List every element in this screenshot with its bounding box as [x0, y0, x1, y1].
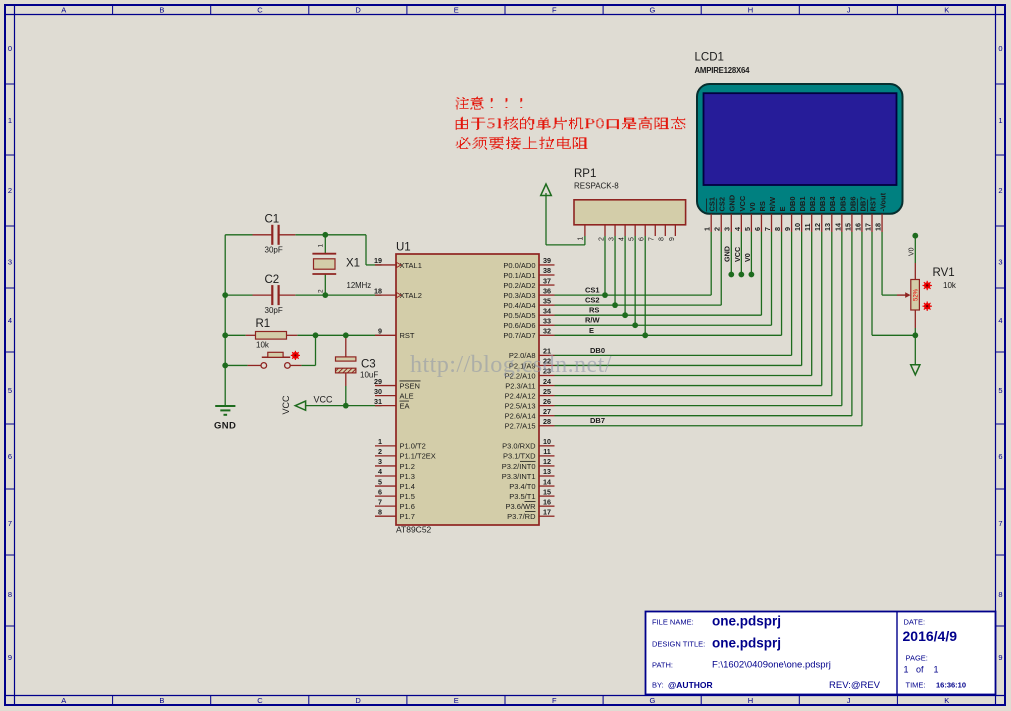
svg-text:XTAL2: XTAL2	[400, 291, 422, 300]
svg-text:37: 37	[543, 276, 551, 285]
svg-text:9: 9	[378, 327, 382, 336]
svg-text:A: A	[61, 696, 66, 705]
svg-text:1: 1	[378, 437, 382, 446]
svg-text:P2.5/A13: P2.5/A13	[505, 401, 536, 410]
svg-text:TIME:: TIME:	[906, 681, 926, 690]
LCD1 pin labels	[707, 192, 888, 211]
svg-text:GND: GND	[723, 246, 732, 262]
svg-text:C2: C2	[265, 274, 280, 286]
svg-text:5: 5	[998, 386, 1002, 395]
svg-text:D: D	[355, 696, 361, 705]
net labels DB0 DB7	[590, 346, 605, 425]
svg-text:E: E	[778, 206, 787, 211]
wire LCD pin17 RST down	[872, 232, 915, 335]
svg-text:R1: R1	[256, 318, 271, 330]
svg-text:P3.6/WR: P3.6/WR	[505, 502, 536, 511]
svg-text:30: 30	[374, 387, 382, 396]
junction dots left section	[222, 232, 348, 409]
wire crystal bottom	[324, 275, 326, 296]
svg-text:1 of 1: 1 of 1	[904, 665, 939, 675]
svg-text:one.pdsprj: one.pdsprj	[712, 636, 781, 651]
svg-text:13: 13	[543, 467, 551, 476]
capacitor C2	[253, 274, 296, 315]
svg-text:52%: 52%	[914, 288, 920, 301]
svg-text:10k: 10k	[256, 341, 270, 350]
svg-text:VCC: VCC	[733, 247, 742, 262]
svg-text:GND: GND	[214, 421, 236, 432]
svg-text:P0.3/AD3: P0.3/AD3	[503, 291, 535, 300]
svg-text:DB0: DB0	[788, 196, 797, 211]
svg-text:0: 0	[998, 44, 1002, 53]
U1 left pins	[374, 256, 436, 521]
svg-text:V0: V0	[748, 202, 757, 211]
pushbutton	[248, 352, 302, 368]
svg-text:REV:@REV: REV:@REV	[829, 680, 881, 691]
svg-text:8: 8	[998, 590, 1002, 599]
svg-text:D: D	[355, 6, 361, 15]
svg-text:P0.7/AD7: P0.7/AD7	[503, 331, 535, 340]
svg-text:one.pdsprj: one.pdsprj	[712, 614, 781, 629]
svg-text:B: B	[159, 6, 164, 15]
svg-text:12: 12	[543, 457, 551, 466]
svg-text:16: 16	[853, 223, 862, 231]
svg-text:P2.4/A12: P2.4/A12	[505, 391, 536, 400]
RP1 pin 1 stub	[584, 225, 586, 237]
svg-text:P3.1/TXD: P3.1/TXD	[503, 452, 536, 461]
svg-text:AMPIRE128X64: AMPIRE128X64	[695, 66, 751, 75]
node V0 at RV1	[912, 233, 918, 239]
LCD1 body	[697, 84, 903, 214]
svg-text:E: E	[589, 326, 594, 335]
svg-text:14: 14	[833, 223, 842, 231]
svg-text:RESPACK-8: RESPACK-8	[574, 182, 619, 191]
svg-text:8: 8	[378, 507, 382, 516]
wire RV1 bottom to ground	[914, 335, 916, 365]
svg-text:P1.3: P1.3	[400, 472, 415, 481]
svg-text:30pF: 30pF	[265, 306, 283, 315]
svg-text:RST: RST	[400, 331, 415, 340]
wire RP1 pin1 to VCC	[546, 193, 585, 245]
svg-text:27: 27	[543, 407, 551, 416]
U1 right pins	[502, 256, 555, 521]
LCD1 power pin wires GND VCC V0	[723, 232, 755, 277]
wires CS1 CS2 RS R/W E	[555, 232, 782, 335]
svg-text:P0.6/AD6: P0.6/AD6	[503, 321, 535, 330]
svg-text:RS: RS	[758, 201, 767, 211]
svg-text:P1.1/T2EX: P1.1/T2EX	[400, 452, 436, 461]
svg-text:P0.5/AD5: P0.5/AD5	[503, 311, 535, 320]
svg-text:A: A	[61, 6, 66, 15]
power symbol VCC (RP1)	[541, 184, 552, 196]
svg-text:9: 9	[998, 653, 1002, 662]
svg-text:PATH:: PATH:	[652, 661, 673, 670]
LCD1 pin stubs and numbers	[703, 214, 883, 232]
svg-text:AT89C52: AT89C52	[396, 525, 432, 535]
svg-text:28: 28	[543, 417, 551, 426]
wire left rail	[224, 235, 226, 406]
svg-text:C3: C3	[361, 359, 376, 371]
svg-text:DB3: DB3	[818, 196, 827, 211]
svg-text:2: 2	[318, 289, 325, 293]
svg-text:26: 26	[543, 397, 551, 406]
svg-text:P1.0/T2: P1.0/T2	[400, 442, 426, 451]
svg-text:DB5: DB5	[838, 196, 847, 211]
svg-text:RP1: RP1	[574, 168, 596, 180]
svg-text:4: 4	[733, 227, 742, 231]
svg-text:FILE NAME:: FILE NAME:	[652, 618, 694, 627]
svg-text:1: 1	[577, 237, 584, 241]
svg-text:18: 18	[873, 223, 882, 231]
resistor pack RP1	[574, 168, 686, 241]
junction dots control rows	[602, 292, 648, 338]
svg-text:F: F	[552, 696, 557, 705]
svg-text:J: J	[847, 6, 851, 15]
svg-text:32: 32	[543, 327, 551, 336]
svg-text:7: 7	[649, 237, 656, 241]
svg-text:15: 15	[543, 487, 551, 496]
svg-text:2: 2	[378, 447, 382, 456]
svg-text:9: 9	[669, 237, 676, 241]
svg-text:H: H	[748, 6, 753, 15]
svg-text:31: 31	[374, 397, 382, 406]
wires DB0-DB7	[555, 232, 862, 426]
svg-text:2: 2	[998, 186, 1002, 195]
svg-text:0: 0	[8, 44, 12, 53]
svg-text:3: 3	[378, 457, 382, 466]
svg-text:RV1: RV1	[933, 267, 955, 279]
watermark	[410, 351, 612, 378]
svg-text:R/W: R/W	[768, 196, 777, 212]
svg-text:24: 24	[543, 377, 551, 386]
wire button row	[225, 335, 315, 365]
svg-text:33: 33	[543, 316, 551, 325]
wire C3 to VCC row	[345, 386, 347, 406]
svg-text:17: 17	[543, 507, 551, 516]
svg-text:38: 38	[543, 266, 551, 275]
potentiometer RV1	[897, 233, 957, 338]
svg-text:C: C	[257, 696, 263, 705]
wires RP1 pins 2-6	[605, 236, 645, 335]
svg-text:P1.5: P1.5	[400, 492, 415, 501]
svg-text:9: 9	[8, 653, 12, 662]
svg-text:DESIGN TITLE:: DESIGN TITLE:	[652, 640, 705, 649]
svg-text:CS1: CS1	[708, 197, 717, 212]
svg-text:P3.5/T1: P3.5/T1	[509, 492, 535, 501]
svg-text:V0: V0	[743, 253, 752, 262]
annotation red chinese text	[456, 97, 686, 150]
svg-text:EA: EA	[400, 401, 410, 410]
svg-text:29: 29	[374, 377, 382, 386]
svg-text:2016/4/9: 2016/4/9	[903, 628, 958, 644]
svg-text:10: 10	[793, 223, 802, 231]
svg-text:P1.6: P1.6	[400, 502, 415, 511]
svg-text:P3.4/T0: P3.4/T0	[509, 482, 535, 491]
svg-text:P1.7: P1.7	[400, 512, 415, 521]
svg-text:6: 6	[998, 452, 1002, 461]
LCD1 AMPIRE128X64	[695, 52, 903, 214]
pushbutton red actuator	[291, 351, 300, 360]
svg-text:VCC: VCC	[281, 395, 291, 415]
svg-text:DB6: DB6	[848, 196, 857, 211]
svg-text:-Vout: -Vout	[878, 192, 887, 211]
svg-text:5: 5	[378, 477, 382, 486]
svg-text:5: 5	[8, 386, 12, 395]
title block	[646, 612, 996, 695]
wire C1 row	[225, 235, 381, 265]
resistor R1	[246, 318, 298, 350]
svg-text:X1: X1	[346, 258, 360, 270]
svg-text:8: 8	[773, 227, 782, 231]
svg-text:R/W: R/W	[585, 316, 601, 325]
svg-text:PSEN: PSEN	[400, 381, 420, 390]
svg-text:35: 35	[543, 296, 551, 305]
svg-text:7: 7	[998, 519, 1002, 528]
svg-text:CS2: CS2	[718, 197, 727, 212]
svg-text:16: 16	[543, 497, 551, 506]
svg-text:PAGE:: PAGE:	[906, 654, 928, 663]
svg-text:B: B	[159, 696, 164, 705]
svg-text:F:\1602\0409one\one.pdsprj: F:\1602\0409one\one.pdsprj	[712, 660, 831, 671]
title block texts	[652, 614, 966, 692]
svg-text:RST: RST	[868, 196, 877, 211]
svg-text:4: 4	[8, 316, 12, 325]
svg-text:4: 4	[378, 467, 382, 476]
svg-text:6: 6	[753, 227, 762, 231]
svg-text:K: K	[944, 696, 949, 705]
svg-text:P2.6/A14: P2.6/A14	[505, 412, 536, 421]
svg-text:E: E	[454, 6, 459, 15]
svg-text:C: C	[257, 6, 263, 15]
wire VCC to EA	[305, 405, 381, 407]
wire LCD pin18 -Vout to RV1 wiper	[882, 232, 897, 295]
RV1 terminal markers	[923, 281, 932, 311]
svg-text:10: 10	[543, 437, 551, 446]
svg-text:DB4: DB4	[828, 196, 837, 212]
svg-text:30pF: 30pF	[265, 246, 283, 255]
svg-text:6: 6	[378, 487, 382, 496]
svg-text:1: 1	[318, 244, 325, 248]
svg-text:12MHz: 12MHz	[347, 281, 372, 290]
ground arrow (RV1)	[911, 365, 920, 375]
svg-text:P0.1/AD1: P0.1/AD1	[503, 271, 535, 280]
svg-text:2: 2	[8, 186, 12, 195]
svg-text:3: 3	[998, 257, 1002, 266]
svg-text:F: F	[552, 6, 557, 15]
svg-text:RS: RS	[589, 306, 599, 315]
svg-text:7: 7	[8, 519, 12, 528]
svg-text:P1.4: P1.4	[400, 482, 415, 491]
svg-text:P0.2/AD2: P0.2/AD2	[503, 281, 535, 290]
svg-text:P3.3/INT1: P3.3/INT1	[502, 472, 536, 481]
svg-text:P2.7/A15: P2.7/A15	[505, 422, 536, 431]
svg-text:P2.3/A11: P2.3/A11	[505, 381, 535, 390]
svg-text:DB1: DB1	[798, 196, 807, 211]
power symbol VCC (left)	[281, 395, 333, 415]
svg-text:CS2: CS2	[585, 296, 600, 305]
svg-text:3: 3	[723, 227, 732, 231]
svg-text:E: E	[454, 696, 459, 705]
svg-text:8: 8	[659, 237, 666, 241]
svg-text:39: 39	[543, 256, 551, 265]
net labels CS1 CS2 RS R/W E	[585, 286, 601, 335]
svg-text:P0.4/AD4: P0.4/AD4	[503, 301, 535, 310]
crystal X1	[312, 244, 371, 294]
svg-text:VCC: VCC	[738, 195, 747, 211]
svg-text:5: 5	[743, 227, 752, 231]
svg-text:6: 6	[8, 452, 12, 461]
svg-text:11: 11	[543, 447, 551, 456]
svg-text:7: 7	[378, 497, 382, 506]
svg-text:1: 1	[998, 116, 1002, 125]
svg-text:DATE:: DATE:	[904, 618, 926, 627]
svg-text:CS1: CS1	[585, 286, 600, 295]
svg-text:2: 2	[713, 227, 722, 231]
svg-text:P1.2: P1.2	[400, 462, 415, 471]
svg-text:15: 15	[843, 223, 852, 231]
svg-text:LCD1: LCD1	[695, 52, 724, 64]
svg-text:G: G	[649, 6, 655, 15]
svg-text:DB2: DB2	[808, 196, 817, 211]
ground symbol GND	[214, 406, 236, 432]
svg-text:VCC: VCC	[314, 395, 334, 405]
wire RST row	[225, 334, 381, 336]
wire C2 row	[225, 294, 381, 296]
svg-text:16:36:10: 16:36:10	[936, 681, 966, 690]
svg-text:11: 11	[803, 223, 812, 231]
svg-text:7: 7	[763, 227, 772, 231]
svg-text:36: 36	[543, 286, 551, 295]
svg-text:9: 9	[783, 227, 792, 231]
svg-text:P0.0/AD0: P0.0/AD0	[503, 261, 535, 270]
op-amp U1 AT89C52 body	[396, 242, 539, 535]
svg-text:17: 17	[863, 223, 872, 231]
svg-text:V0: V0	[908, 247, 915, 256]
svg-text:10k: 10k	[943, 281, 957, 290]
svg-text:J: J	[847, 696, 851, 705]
svg-text:P3.2/INT0: P3.2/INT0	[502, 462, 536, 471]
svg-text:@AUTHOR: @AUTHOR	[668, 680, 713, 690]
svg-text:GND: GND	[728, 194, 737, 211]
svg-text:G: G	[649, 696, 655, 705]
svg-text:18: 18	[374, 286, 382, 295]
svg-text:34: 34	[543, 306, 551, 315]
svg-text:http://blog.csdn.net/: http://blog.csdn.net/	[410, 351, 612, 378]
svg-text:ALE: ALE	[400, 391, 414, 400]
svg-text:DB7: DB7	[590, 416, 605, 425]
svg-text:1: 1	[703, 227, 712, 231]
svg-text:3: 3	[8, 257, 12, 266]
svg-text:C1: C1	[265, 214, 280, 226]
svg-text:13: 13	[823, 223, 832, 231]
svg-text:DB7: DB7	[858, 196, 867, 211]
svg-text:U1: U1	[396, 242, 411, 254]
svg-text:8: 8	[8, 590, 12, 599]
svg-text:12: 12	[813, 223, 822, 231]
svg-text:25: 25	[543, 387, 551, 396]
wire crystal top	[324, 235, 326, 253]
svg-text:P3.7/RD: P3.7/RD	[507, 512, 536, 521]
svg-text:BY:: BY:	[652, 681, 664, 690]
capacitor C1	[253, 214, 296, 255]
capacitor C3	[336, 335, 379, 386]
svg-text:XTAL1: XTAL1	[400, 261, 422, 270]
svg-text:1: 1	[8, 116, 12, 125]
svg-text:4: 4	[998, 316, 1002, 325]
svg-text:14: 14	[543, 477, 551, 486]
svg-text:K: K	[944, 6, 949, 15]
svg-text:H: H	[748, 696, 753, 705]
svg-text:P3.0/RXD: P3.0/RXD	[502, 442, 536, 451]
svg-text:19: 19	[374, 256, 382, 265]
